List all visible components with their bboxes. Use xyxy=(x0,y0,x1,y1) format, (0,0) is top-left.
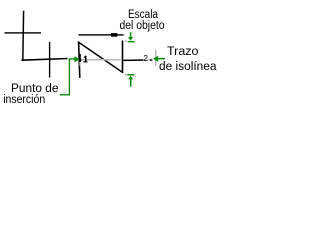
green leader for Punto de insercion xyxy=(60,59,75,95)
svg-text:inserción: inserción xyxy=(3,94,45,106)
shape right vertical V4 xyxy=(122,41,124,74)
svg-text:de isolínea: de isolínea xyxy=(159,61,217,73)
green arrowhead pointing right at insertion point xyxy=(74,56,80,62)
wire vertical V2 (left linetype segment) xyxy=(49,42,50,78)
svg-text:Trazo: Trazo xyxy=(167,46,199,58)
short dash right of digit 2 xyxy=(150,59,153,60)
green top scale indicator stem xyxy=(130,32,132,37)
green bottom scale indicator bar xyxy=(127,74,134,76)
svg-text:del objeto: del objeto xyxy=(120,20,165,32)
grey extension tick at label 2 xyxy=(155,50,156,66)
grey line segment under digit 2 xyxy=(143,59,150,60)
digit 1 (insertion point) xyxy=(83,56,87,63)
green top scale indicator bar xyxy=(128,41,134,43)
insertion point tick (black part) xyxy=(79,54,80,62)
green arrowhead pointing left at dash (label 2) xyxy=(153,56,158,62)
wire horizontal H3 (top line of shape detail) xyxy=(78,34,123,35)
svg-text:Punto de: Punto de xyxy=(11,83,59,95)
black line stub right of insertion tick xyxy=(80,59,82,60)
svg-text:2: 2 xyxy=(143,53,148,63)
shape diagonal D xyxy=(78,42,123,73)
shape left vertical V3 xyxy=(79,42,80,78)
grey isoline behind shape xyxy=(82,59,121,61)
grey extension dash bottom xyxy=(125,74,128,75)
green tail to Trazo label xyxy=(158,58,165,60)
wire horizontal H4 (dash line to label 2) xyxy=(123,59,143,61)
wire vertical V1 (left linetype segment) xyxy=(22,11,25,61)
insertion point tick (grey part) xyxy=(79,62,80,66)
green top scale indicator arrowhead (down) xyxy=(128,37,133,41)
thick linetype dash on H3 xyxy=(111,33,117,37)
grey extension dash top xyxy=(125,41,128,42)
green bottom scale indicator arrowhead (up) xyxy=(128,76,133,80)
green bottom scale indicator stem xyxy=(130,79,132,86)
wire horizontal H2 (left linetype segment) xyxy=(21,59,67,61)
wire horizontal H1 (left linetype segment) xyxy=(5,32,42,33)
